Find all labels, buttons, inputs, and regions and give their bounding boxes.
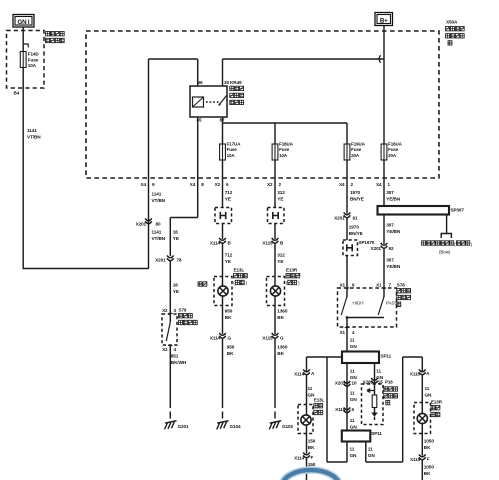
connector X201 pin 91 xyxy=(334,212,358,220)
connector X209 pin 10 xyxy=(335,381,357,387)
svg-text:1141: 1141 xyxy=(152,192,162,197)
svg-text:BK: BK xyxy=(225,315,232,320)
svg-text:GN: GN xyxy=(368,453,376,458)
svg-text:307: 307 xyxy=(386,258,394,263)
relay pin labels 86 30 85 87 xyxy=(197,80,242,123)
svg-text:G: G xyxy=(280,336,284,341)
svg-text:BK: BK xyxy=(308,445,315,450)
svg-text:(Bow): (Bow) xyxy=(439,250,451,255)
svg-text:GN I: GN I xyxy=(18,19,30,26)
P16 label 组合仪 表指示 灯 xyxy=(384,387,398,405)
svg-text:GN: GN xyxy=(350,453,358,458)
svg-text:1141: 1141 xyxy=(27,128,37,133)
svg-text:X201: X201 xyxy=(335,381,346,386)
svg-text:F16UA: F16UA xyxy=(388,142,403,147)
svg-text:11: 11 xyxy=(350,369,355,374)
E13R label 右侧远(光灯) xyxy=(286,268,300,286)
svg-text:BK: BK xyxy=(277,315,284,320)
wire 312 YE xyxy=(275,178,285,208)
svg-text:X201: X201 xyxy=(136,222,147,227)
svg-text:SP1970: SP1970 xyxy=(359,240,375,245)
svg-text:1050: 1050 xyxy=(424,439,435,444)
P16 instrument cluster high-beam indicator (dashed) xyxy=(362,384,384,425)
fuse block label 仪表板下 保险丝盒 xyxy=(46,32,65,43)
svg-text:20A: 20A xyxy=(351,153,360,158)
svg-text:X201: X201 xyxy=(371,246,382,251)
S78 multifunction switch HIGH/PASS (dashed) xyxy=(338,288,397,327)
wire 1360 BK xyxy=(275,306,288,335)
fuse F16UA 20A xyxy=(381,142,403,160)
svg-text:Fuse: Fuse xyxy=(279,147,290,152)
lamp E13R right low beam (dashed) xyxy=(414,403,431,434)
svg-text:1360: 1360 xyxy=(277,309,288,314)
svg-text:BK: BK xyxy=(424,471,431,476)
svg-text:X115: X115 xyxy=(262,336,273,341)
svg-text:851: 851 xyxy=(171,354,179,359)
svg-text:HIGH: HIGH xyxy=(353,301,364,306)
svg-text:10: 10 xyxy=(352,381,357,386)
S78 label 多功能 控制开 关 xyxy=(397,283,411,307)
svg-text:E13L: E13L xyxy=(234,268,245,273)
power terminal B+ xyxy=(375,13,393,26)
wire 1050 BK xyxy=(422,434,434,456)
svg-text:312: 312 xyxy=(277,253,285,258)
svg-text:E13R: E13R xyxy=(431,400,443,405)
wire 851 BK/WH xyxy=(170,346,187,409)
wire 16 YE to S79 xyxy=(170,261,179,314)
svg-text:BN/YE: BN/YE xyxy=(350,196,364,201)
power terminal GN I xyxy=(13,15,34,28)
splice bar SP307 xyxy=(378,206,465,215)
svg-text:X4: X4 xyxy=(376,182,382,187)
wire 950 BK to ground xyxy=(223,339,235,409)
svg-text:VT/BN: VT/BN xyxy=(152,236,166,241)
svg-text:F19UA: F19UA xyxy=(351,142,366,147)
wire 1970 BN/YE to splice xyxy=(347,218,363,240)
svg-text:X50A: X50A xyxy=(446,20,458,25)
junction clip on B+ node xyxy=(379,55,381,63)
svg-text:X1: X1 xyxy=(340,283,346,288)
wire from GN I to fuse block xyxy=(22,27,24,44)
S79 label 多功能 控制开关 xyxy=(179,308,198,325)
svg-text:F14D: F14D xyxy=(28,52,40,57)
lamp E13R right high beam (dashed) xyxy=(267,277,285,306)
svg-text:86: 86 xyxy=(198,80,203,85)
svg-text:X4: X4 xyxy=(141,182,147,187)
svg-text:307: 307 xyxy=(386,223,394,228)
ground G201 xyxy=(165,412,190,430)
connector X115 pin F xyxy=(410,454,430,462)
svg-text:F: F xyxy=(427,457,430,462)
svg-text:G104: G104 xyxy=(230,424,242,429)
connector X115 pin A xyxy=(410,357,430,377)
svg-text:X2: X2 xyxy=(267,182,273,187)
svg-text:GN: GN xyxy=(350,344,358,349)
svg-text:E13L: E13L xyxy=(314,398,325,403)
wire fuse to block edge, pin B4 xyxy=(14,68,24,96)
svg-text:150: 150 xyxy=(308,439,316,444)
box edge pin labels X4|9 X4|8 X2|6 X2|2 X4|2 X4|1 xyxy=(141,182,391,187)
svg-text:YE/BN: YE/BN xyxy=(386,229,401,234)
svg-text:PASS: PASS xyxy=(386,301,397,306)
svg-text:1970: 1970 xyxy=(349,225,360,230)
svg-text:78: 78 xyxy=(177,258,182,263)
label X50A 发动机罩下保险丝盒 xyxy=(446,20,465,46)
svg-text:80: 80 xyxy=(156,222,161,227)
svg-text:11: 11 xyxy=(376,369,381,374)
wire 1360 BK to ground xyxy=(275,339,288,409)
svg-text:B4: B4 xyxy=(14,91,20,96)
svg-text:G: G xyxy=(228,336,232,341)
wire 11 GN to left lamp loop xyxy=(347,442,357,463)
svg-text:712: 712 xyxy=(225,190,233,195)
svg-text:X115: X115 xyxy=(410,457,420,462)
svg-text:GN: GN xyxy=(350,375,358,380)
svg-text:X114: X114 xyxy=(210,336,221,341)
svg-text:950: 950 xyxy=(227,345,235,350)
underhood fuse block X50A (dashed) xyxy=(86,31,439,178)
svg-text:10A: 10A xyxy=(227,153,236,158)
svg-text:YE: YE xyxy=(225,259,231,264)
svg-text:16: 16 xyxy=(173,230,179,235)
inline connector (dashed) on 312 YE xyxy=(268,208,285,224)
svg-text:Fuse: Fuse xyxy=(351,147,362,152)
svg-text:BK: BK xyxy=(424,445,431,450)
svg-text:1141: 1141 xyxy=(152,230,162,235)
svg-text:11: 11 xyxy=(425,386,430,391)
S78 contact labels HIGH PASS xyxy=(353,301,398,306)
wire 11 GN to right low beam xyxy=(422,375,432,403)
S79 pin labels X2|3 X2|4 xyxy=(162,308,176,352)
fuse F14D 10A xyxy=(20,52,39,69)
lamp E13L left low beam (dashed) xyxy=(298,405,313,434)
svg-text:Fuse: Fuse xyxy=(388,147,399,152)
connector X114 pin G xyxy=(210,333,232,341)
fuse F17UA 10A xyxy=(220,142,242,160)
connector X114 pin A xyxy=(294,357,315,377)
svg-text:950: 950 xyxy=(225,309,233,314)
connector X115 pin G xyxy=(262,333,284,341)
svg-text:S78: S78 xyxy=(397,283,405,288)
wire 312 YE to lamp xyxy=(275,243,285,277)
wire 150 BK off-page xyxy=(307,458,316,480)
svg-text:BN/YE: BN/YE xyxy=(349,231,363,236)
svg-text:X2: X2 xyxy=(162,347,168,352)
svg-text:X114: X114 xyxy=(294,456,304,461)
wire 1970 to S78 HIGH xyxy=(346,256,348,289)
connector X115 pin B xyxy=(262,224,284,246)
svg-text:11: 11 xyxy=(350,391,355,396)
S78 pin labels X1|6 X1|7 xyxy=(340,283,392,288)
svg-text:GN: GN xyxy=(350,424,358,429)
svg-text:11: 11 xyxy=(350,418,355,423)
wire 712 YE xyxy=(223,178,233,208)
connector X110 pin 6 xyxy=(335,407,354,413)
svg-text:312: 312 xyxy=(277,190,285,195)
svg-text:11: 11 xyxy=(308,386,313,391)
svg-text:X115: X115 xyxy=(262,241,273,246)
svg-text:E13R: E13R xyxy=(286,268,298,273)
svg-text:20A: 20A xyxy=(388,153,397,158)
svg-text:F17UA: F17UA xyxy=(227,142,242,147)
svg-text:1050: 1050 xyxy=(424,465,435,470)
svg-text:YE: YE xyxy=(277,259,283,264)
svg-text:712: 712 xyxy=(225,253,233,258)
svg-text:X114: X114 xyxy=(294,372,304,377)
label 电机 xyxy=(198,282,207,286)
svg-text:X201: X201 xyxy=(334,216,345,221)
splice bar SP11 (upper) xyxy=(342,352,392,364)
wire 11 GN to P16 xyxy=(375,363,384,384)
svg-text:Fuse: Fuse xyxy=(227,147,238,152)
ground G104 xyxy=(217,412,241,430)
svg-text:1360: 1360 xyxy=(277,345,288,350)
svg-text:YE: YE xyxy=(277,196,283,201)
connector X114 pin B xyxy=(210,224,232,246)
svg-text:GN: GN xyxy=(425,392,433,397)
wire 307 YE/BN xyxy=(384,178,401,206)
connector X201 pin 78 xyxy=(155,255,182,262)
connector X201 pin 92 xyxy=(371,243,394,251)
svg-text:X4: X4 xyxy=(190,182,196,187)
svg-text:G102: G102 xyxy=(282,424,294,429)
wire 11 GN xyxy=(350,391,358,402)
splice SP1970 (dashed) xyxy=(343,240,375,256)
svg-text:SP307: SP307 xyxy=(451,208,465,213)
svg-text:X114: X114 xyxy=(210,241,221,246)
svg-text:X2: X2 xyxy=(162,308,168,313)
E13L label 左侧远(光灯) xyxy=(233,268,247,286)
svg-text:F18UA: F18UA xyxy=(279,142,294,147)
svg-text:92: 92 xyxy=(389,246,394,251)
connector X114 pin F xyxy=(294,452,313,460)
inline connector (dashed) on 712 YE xyxy=(215,208,232,224)
wire 11 GN from S78 xyxy=(347,328,357,352)
svg-text:B+: B+ xyxy=(380,18,388,25)
fuse F19UA 20A xyxy=(344,142,366,160)
svg-text:16: 16 xyxy=(173,283,179,288)
wire 712 YE to lamp xyxy=(223,243,233,277)
relay KR49 headlamp high-beam relay xyxy=(190,86,227,117)
lamp E13L left high beam (dashed) xyxy=(214,277,232,306)
svg-text:SP11: SP11 xyxy=(371,431,382,436)
svg-text:X2: X2 xyxy=(215,182,221,187)
wire 1970 BN/YE xyxy=(347,178,364,214)
instrument panel fuse block (dashed) xyxy=(7,31,45,89)
svg-text:S79: S79 xyxy=(179,308,187,313)
wire SP307 to parking lamp xyxy=(441,215,451,239)
S78 output pin X1|4 xyxy=(340,328,355,336)
S79 multifunction switch (dashed) xyxy=(162,314,177,346)
svg-text:BK/WH: BK/WH xyxy=(171,360,187,365)
wire 307 YE/BN below splice xyxy=(384,215,401,245)
wire B+ feed down to fuse F16UA xyxy=(383,26,385,145)
svg-text:P16: P16 xyxy=(385,380,393,385)
svg-text:X4: X4 xyxy=(339,182,345,187)
wire SP11 to left low beam feed xyxy=(307,357,348,462)
svg-text:BK: BK xyxy=(227,351,234,356)
svg-text:YE: YE xyxy=(173,289,179,294)
svg-text:X201: X201 xyxy=(155,258,166,263)
svg-text:11: 11 xyxy=(350,447,355,452)
connector X201 pin 80 xyxy=(136,218,166,240)
wire 11 GN to left low beam xyxy=(307,375,316,405)
splice bar SP11 (lower) xyxy=(342,431,383,442)
svg-text:10A: 10A xyxy=(279,153,288,158)
svg-text:11: 11 xyxy=(368,447,373,452)
wire 150 BK xyxy=(307,434,316,454)
svg-text:YE: YE xyxy=(173,236,179,241)
wire 1050 BK off-page xyxy=(422,460,434,480)
relay label 前照灯 远光灯 继电器 xyxy=(230,86,244,104)
clip terminal inside fuse block xyxy=(23,44,28,52)
svg-text:X1: X1 xyxy=(376,283,382,288)
connector X209 pin 15 xyxy=(363,378,394,385)
wires fuses to box edge xyxy=(223,160,385,178)
wire 11 GN xyxy=(350,418,358,429)
wire 1141 VT/BN xyxy=(149,178,166,269)
svg-text:VT/BN: VT/BN xyxy=(152,198,166,203)
wire B+ to relay pin 30 xyxy=(223,59,385,86)
svg-text:GN: GN xyxy=(350,397,358,402)
svg-text:YE/BN: YE/BN xyxy=(386,196,401,201)
wire 1141 VT/BN left run xyxy=(23,88,149,269)
fuse F18UA 10A xyxy=(272,142,294,160)
wire 11 GN to right lamp loop xyxy=(366,357,423,462)
svg-text:BK: BK xyxy=(277,351,284,356)
label 车外照明示宽灯(驻车灯) (Bow) xyxy=(422,241,473,255)
wire 16 YE from X4 pin 8 xyxy=(170,178,197,256)
svg-text:Fuse: Fuse xyxy=(28,57,39,62)
svg-text:G201: G201 xyxy=(178,424,190,429)
wire relay pin 86 to X4 pin 9 xyxy=(149,59,198,178)
svg-text:1970: 1970 xyxy=(350,190,361,195)
svg-text:91: 91 xyxy=(353,216,358,221)
highlight ellipse (annotation) xyxy=(282,470,339,480)
svg-text:F: F xyxy=(311,455,314,460)
svg-text:VT/BN: VT/BN xyxy=(27,134,41,139)
E13L label 近光(灯) xyxy=(314,398,325,415)
wire relay pin 87 feed bus xyxy=(223,117,348,144)
wire 11 GN main below SP11 xyxy=(347,363,357,431)
svg-text:X1: X1 xyxy=(340,330,346,335)
svg-text:307: 307 xyxy=(386,190,394,195)
svg-text:YE: YE xyxy=(225,196,231,201)
svg-text:X115: X115 xyxy=(410,372,420,377)
svg-text:X110: X110 xyxy=(335,407,346,412)
wire 950 BK xyxy=(223,306,233,335)
E13R label 近光(灯) xyxy=(431,400,443,417)
svg-text:YE/BN: YE/BN xyxy=(386,264,401,269)
svg-text:11: 11 xyxy=(350,338,355,343)
svg-text:SP11: SP11 xyxy=(381,354,392,359)
wire 307 YE/BN to S78 PASS xyxy=(384,249,401,289)
svg-text:10A: 10A xyxy=(28,63,37,68)
wire relay pin 85 to X4 pin 8 xyxy=(197,117,199,178)
ground G102 xyxy=(269,412,293,430)
svg-text:30 KR49: 30 KR49 xyxy=(224,80,242,85)
